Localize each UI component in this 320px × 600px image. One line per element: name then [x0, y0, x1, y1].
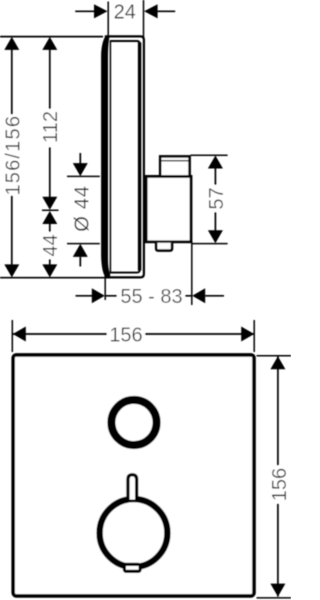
front view: thermostat handle	[100, 499, 168, 567]
svg-text:156: 156	[269, 468, 291, 501]
dimension 55-83: line	[105, 295, 192, 297]
side view: cap inner line	[161, 160, 189, 162]
front dimension 156 top: right extension line	[253, 320, 255, 352]
dimension D44: top arrowhead (pointing down)	[73, 163, 88, 176]
dimension 55-83: left tail line	[76, 295, 94, 297]
dimension D44: bottom tick	[67, 243, 100, 245]
dimension 57: bottom extension line	[192, 243, 228, 245]
dimension 44: top arrowhead	[42, 211, 57, 224]
dimension 24: right arrowhead	[144, 4, 158, 18]
svg-text:57: 57	[206, 187, 228, 209]
dimension 24: right tail line	[158, 10, 176, 12]
dimension 24: left extension line	[107, 2, 109, 38]
dimension 24: right extension line	[143, 0, 145, 38]
dimension 156/156: bottom arrowhead	[4, 264, 19, 277]
dimension 55-83: left extension line	[104, 272, 106, 300]
side view: cartridge cap (upper step)	[160, 156, 189, 176]
dimension 44: vertical line	[49, 224, 51, 266]
dimension 55-83: right tail line	[205, 295, 224, 297]
side view: glass plate front edge (thick bar)	[101, 37, 110, 278]
dimension 57: top extension line	[191, 154, 228, 156]
dimension 55-83: right arrowhead	[192, 288, 205, 303]
dimension 156/156: top arrowhead	[4, 37, 19, 50]
front view: select button ring	[111, 400, 156, 445]
side view: glass plate inner front line	[109, 41, 111, 273]
dimension 156/156: value label	[2, 115, 24, 196]
dimension D44: upper tail line	[79, 153, 81, 164]
dimension D44: top tick	[67, 175, 100, 177]
front dimension 156 right: bottom extension line	[257, 597, 292, 599]
front dimension 156 top: value label	[107, 324, 145, 346]
dimension 112: value label	[40, 109, 62, 147]
svg-text:24: 24	[114, 2, 136, 24]
side view: plate outer edge (top, back, bottom)	[105, 36, 144, 277]
svg-text:156: 156	[109, 324, 142, 346]
side view: bottom nub	[156, 243, 172, 251]
front dimension 156 top: left extension line	[11, 320, 13, 352]
dimension 112: bottom arrowhead	[42, 197, 57, 210]
dimension 55-83: right extension line	[191, 242, 193, 305]
dimension 57: vertical line	[214, 168, 216, 231]
front dimension 156 right: line	[277, 356, 279, 596]
dimension 24: left tail line	[75, 10, 94, 12]
dimension 156/156: vertical line	[11, 48, 13, 266]
dimension 112: vertical line	[49, 48, 51, 198]
front dimension 156 top: left arrowhead	[13, 327, 26, 342]
dimension 156/156: bottom extension line	[0, 277, 106, 279]
front dimension 156 right: value label	[269, 466, 291, 504]
side view: plate inner edge line	[110, 41, 140, 273]
front view: handle pointer stem	[128, 475, 137, 500]
side view: handle main block	[146, 176, 191, 241]
front dimension 156 right: top extension line	[257, 355, 292, 357]
dimension D44: bottom arrowhead (pointing up)	[73, 244, 88, 257]
dimension 112: top arrowhead	[42, 37, 57, 50]
front dimension 156 right: bottom arrowhead	[270, 584, 285, 597]
dimension 44: value label	[40, 232, 62, 259]
front dimension 156 right: top arrowhead	[270, 356, 285, 369]
dimension 55-83: value label	[117, 286, 185, 308]
shared tick between 112 and 44	[42, 209, 59, 211]
dimension 57: bottom arrowhead	[208, 230, 223, 243]
dimension 44: bottom arrowhead	[42, 264, 57, 277]
front dimension 156 top: line	[13, 333, 254, 335]
svg-text:Ø 44: Ø 44	[71, 185, 93, 232]
svg-text:44: 44	[40, 234, 62, 256]
dimension 156/156: top extension line	[0, 36, 103, 38]
front view: handle bottom tab	[124, 564, 140, 571]
dimension 24: left arrowhead	[94, 4, 108, 18]
dimension 55-83: left arrowhead	[92, 288, 105, 303]
svg-text:55 - 83: 55 - 83	[120, 286, 182, 308]
dimension 57: value label	[206, 185, 228, 212]
svg-text:156/156: 156/156	[2, 115, 24, 196]
dimension 57: top arrowhead	[208, 156, 223, 169]
side view: plate back bar	[138, 43, 141, 271]
dimension D44: lower tail line	[79, 257, 81, 267]
front dimension 156 top: right arrowhead	[241, 327, 254, 342]
front view: escutcheon plate	[13, 355, 254, 596]
svg-text:112: 112	[40, 111, 62, 143]
